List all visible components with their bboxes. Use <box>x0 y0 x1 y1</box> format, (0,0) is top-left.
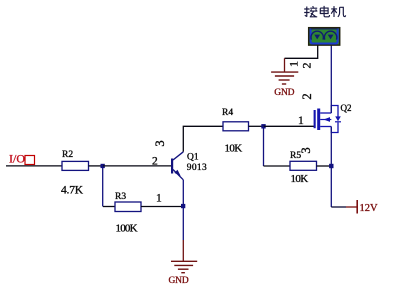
wire node B to ground <box>182 207 184 241</box>
svg-text:2: 2 <box>152 156 158 168</box>
label motor text <box>304 6 345 17</box>
node D junction <box>329 164 333 168</box>
ground GND2 <box>271 58 298 98</box>
svg-text:GND: GND <box>169 276 189 286</box>
resistor R5 <box>290 151 317 185</box>
wire node C to Q2 gate <box>264 125 315 127</box>
wire R5 to node D <box>317 165 332 167</box>
svg-text:GND: GND <box>274 88 294 98</box>
power 12V <box>346 200 378 214</box>
char dian <box>320 6 329 17</box>
wire Q2 drain to connector <box>330 46 332 114</box>
wire connector pin1 <box>285 46 318 59</box>
wire node C to R5 <box>264 165 291 167</box>
svg-text:3: 3 <box>153 140 167 146</box>
svg-text:4.7K: 4.7K <box>61 185 84 197</box>
svg-text:Q2: Q2 <box>341 103 352 113</box>
svg-text:1: 1 <box>156 193 162 205</box>
svg-text:R3: R3 <box>115 192 126 202</box>
char ji <box>331 6 337 17</box>
wire port to R2 <box>6 165 62 167</box>
svg-text:R4: R4 <box>222 108 233 118</box>
svg-text:100K: 100K <box>116 223 138 235</box>
svg-text:2: 2 <box>300 93 314 99</box>
node C junction <box>261 124 265 128</box>
svg-text:1: 1 <box>298 115 304 127</box>
resistor R2 <box>61 150 89 197</box>
resistor R4 <box>222 108 249 155</box>
node B junction <box>181 204 185 208</box>
wire Q1 collector up <box>183 126 223 152</box>
wire Q2 source down <box>330 127 332 208</box>
svg-text:10K: 10K <box>291 173 309 185</box>
svg-text:10K: 10K <box>225 143 243 155</box>
resistor R3 <box>115 192 141 235</box>
wire R4 to node C <box>249 125 264 127</box>
svg-text:I/O: I/O <box>9 152 25 166</box>
wire R2 to node A <box>89 165 104 167</box>
svg-text:R2: R2 <box>62 150 73 160</box>
svg-text:Q1: Q1 <box>187 153 199 163</box>
wire node C down <box>263 126 265 166</box>
wire R3 to node B <box>141 206 183 208</box>
transistor Q1 <box>171 152 207 180</box>
ground GND1 <box>169 240 198 286</box>
wire node A to Q1 base <box>103 165 171 167</box>
wire source to 12V <box>331 206 346 208</box>
svg-text:3: 3 <box>299 147 313 153</box>
wire node A down <box>102 166 104 207</box>
node A junction <box>101 164 105 168</box>
svg-text:2: 2 <box>299 63 313 69</box>
connector J1 motor <box>309 28 340 45</box>
port I/O <box>9 152 35 166</box>
svg-text:9013: 9013 <box>187 163 207 173</box>
char jie <box>304 7 309 17</box>
wire node A to R3 <box>103 206 115 208</box>
wire Q1 emitter down <box>182 180 184 207</box>
transistor Q2 MOSFET <box>314 103 352 133</box>
svg-text:12V: 12V <box>360 203 379 214</box>
